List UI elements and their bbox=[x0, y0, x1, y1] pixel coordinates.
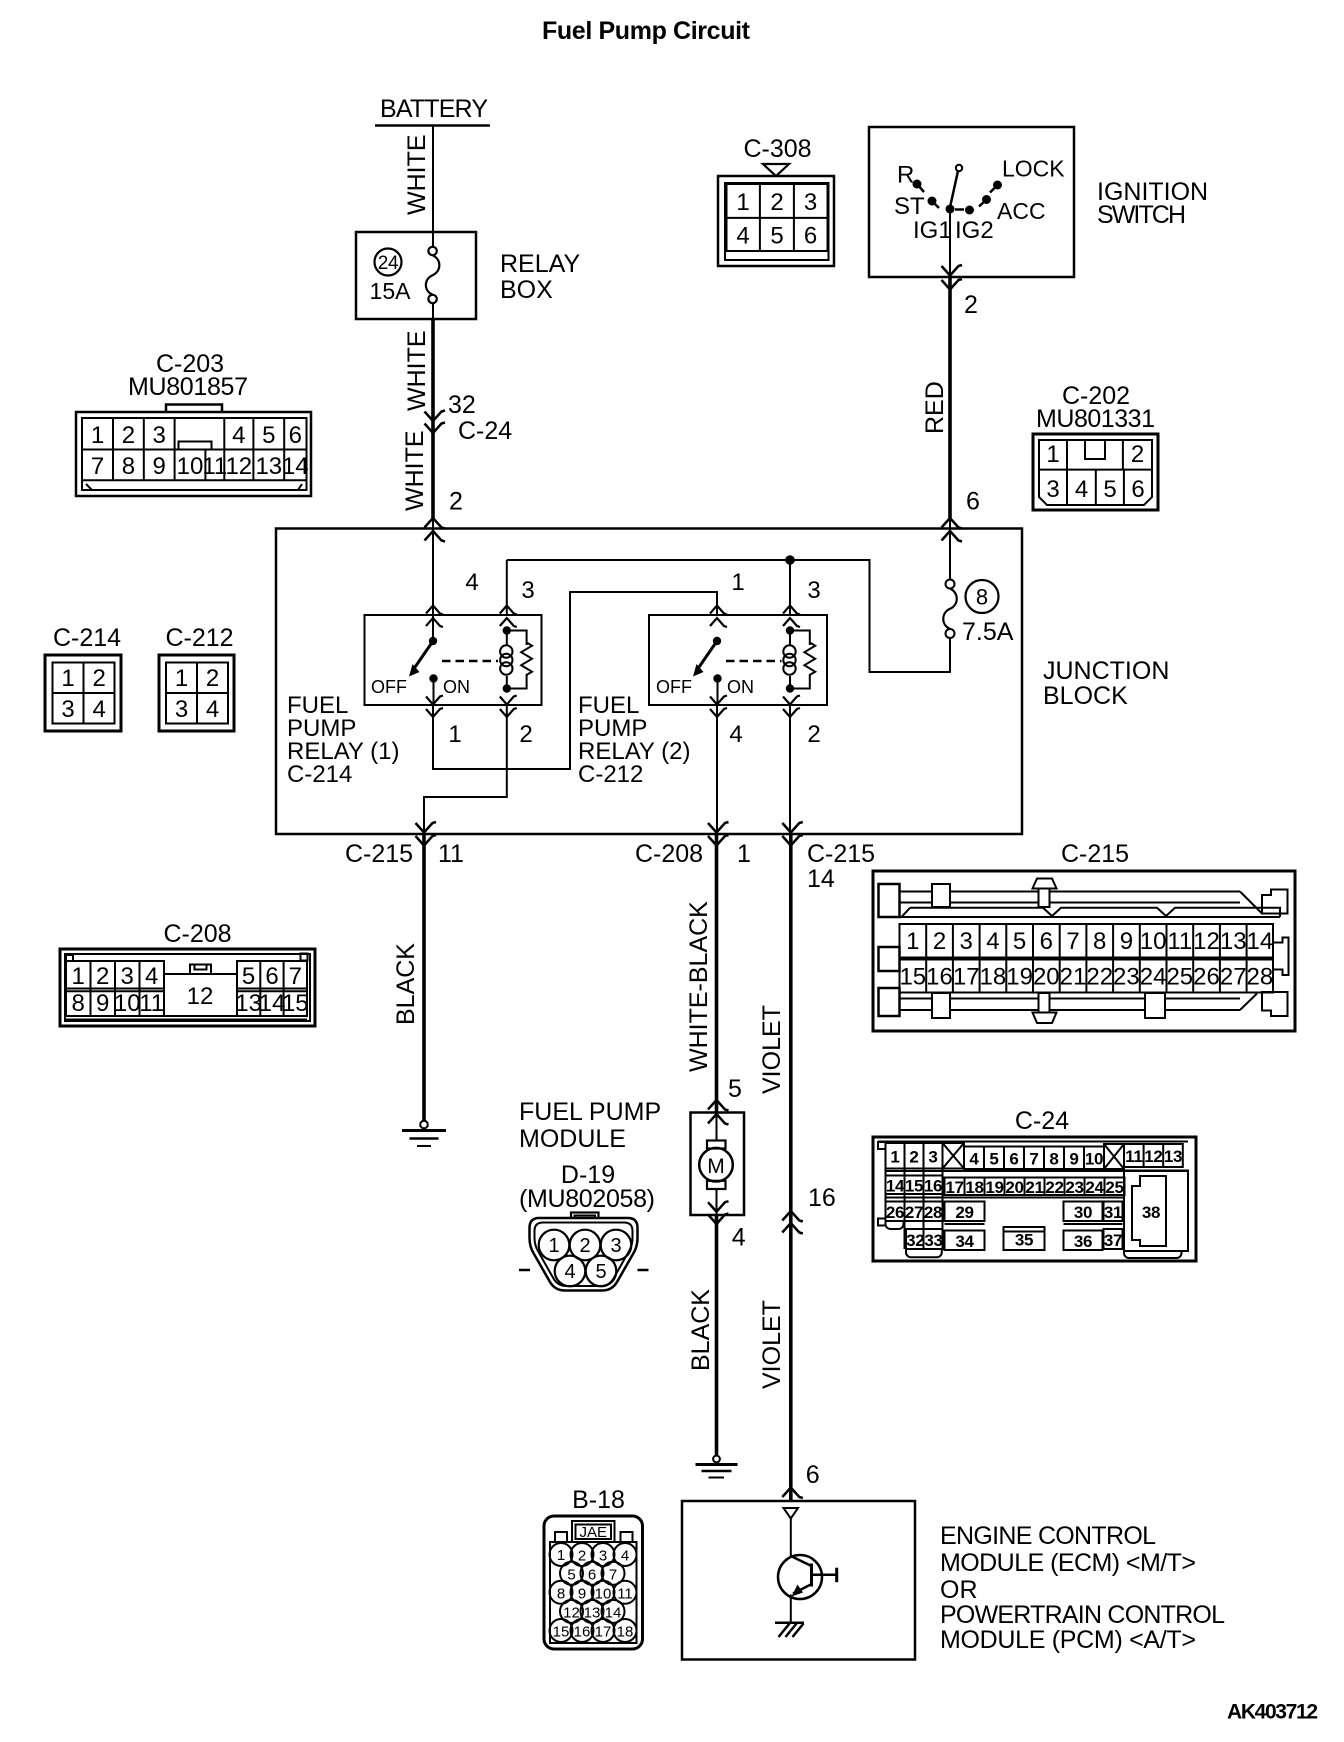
svg-text:15: 15 bbox=[905, 1177, 923, 1196]
svg-text:1: 1 bbox=[72, 963, 85, 990]
svg-text:14: 14 bbox=[1247, 928, 1274, 955]
svg-text:MODULE: MODULE bbox=[519, 1125, 626, 1153]
svg-text:C-215: C-215 bbox=[1061, 840, 1129, 868]
svg-text:WHITE: WHITE bbox=[403, 330, 431, 411]
svg-text:B-18: B-18 bbox=[572, 1486, 625, 1514]
svg-text:9: 9 bbox=[1069, 1150, 1078, 1169]
svg-text:4: 4 bbox=[145, 963, 158, 990]
svg-text:7: 7 bbox=[1066, 928, 1079, 955]
svg-text:9: 9 bbox=[96, 990, 109, 1017]
svg-text:18: 18 bbox=[965, 1178, 983, 1197]
svg-text:19: 19 bbox=[1006, 964, 1033, 991]
svg-text:9: 9 bbox=[578, 1585, 586, 1602]
svg-text:3: 3 bbox=[61, 696, 74, 723]
svg-text:OFF: OFF bbox=[371, 677, 407, 697]
svg-text:14: 14 bbox=[807, 865, 835, 893]
svg-text:27: 27 bbox=[905, 1203, 923, 1222]
svg-text:31: 31 bbox=[1104, 1203, 1122, 1222]
svg-text:MU801331: MU801331 bbox=[1036, 405, 1155, 433]
svg-text:11: 11 bbox=[1167, 928, 1192, 955]
svg-text:20: 20 bbox=[1005, 1178, 1023, 1197]
svg-text:POWERTRAIN CONTROL: POWERTRAIN CONTROL bbox=[940, 1601, 1225, 1629]
svg-text:37: 37 bbox=[1104, 1231, 1122, 1250]
svg-text:23: 23 bbox=[1065, 1178, 1083, 1197]
svg-text:10: 10 bbox=[177, 453, 204, 480]
svg-text:5: 5 bbox=[1103, 476, 1116, 503]
svg-text:MODULE (PCM) <A/T>: MODULE (PCM) <A/T> bbox=[940, 1626, 1196, 1654]
svg-text:AK403712: AK403712 bbox=[1227, 1701, 1318, 1724]
svg-text:3: 3 bbox=[521, 577, 534, 604]
svg-text:2: 2 bbox=[578, 1548, 586, 1565]
svg-text:2: 2 bbox=[964, 291, 978, 319]
svg-text:C-212: C-212 bbox=[165, 624, 233, 652]
svg-text:10: 10 bbox=[114, 990, 141, 1017]
svg-text:4: 4 bbox=[621, 1548, 629, 1565]
svg-text:15: 15 bbox=[899, 964, 926, 991]
svg-text:17: 17 bbox=[953, 964, 980, 991]
svg-text:SWITCH: SWITCH bbox=[1097, 201, 1186, 229]
svg-text:ST: ST bbox=[894, 193, 925, 220]
svg-text:36: 36 bbox=[1074, 1232, 1092, 1251]
svg-text:BATTERY: BATTERY bbox=[380, 95, 488, 123]
svg-text:14: 14 bbox=[886, 1177, 905, 1196]
svg-text:MODULE (ECM) <M/T>: MODULE (ECM) <M/T> bbox=[940, 1549, 1196, 1577]
svg-text:BLOCK: BLOCK bbox=[1043, 682, 1128, 710]
svg-text:C-308: C-308 bbox=[743, 135, 811, 163]
svg-text:4: 4 bbox=[729, 721, 742, 748]
svg-text:RED: RED bbox=[921, 381, 949, 434]
svg-text:9: 9 bbox=[153, 453, 166, 480]
svg-text:28: 28 bbox=[1247, 964, 1274, 991]
svg-text:C-208: C-208 bbox=[163, 920, 231, 948]
svg-text:5: 5 bbox=[770, 223, 783, 250]
svg-text:1: 1 bbox=[890, 1148, 899, 1167]
svg-text:2: 2 bbox=[93, 665, 106, 692]
svg-text:2: 2 bbox=[1131, 441, 1144, 468]
svg-text:10: 10 bbox=[1140, 928, 1167, 955]
svg-text:8: 8 bbox=[1093, 928, 1106, 955]
svg-text:34: 34 bbox=[955, 1232, 974, 1251]
svg-text:C-208: C-208 bbox=[635, 840, 703, 868]
svg-text:C-214: C-214 bbox=[53, 624, 121, 652]
svg-text:7: 7 bbox=[289, 963, 302, 990]
svg-text:11: 11 bbox=[438, 840, 464, 868]
svg-text:R: R bbox=[897, 162, 914, 189]
svg-text:JAE: JAE bbox=[579, 1524, 607, 1541]
svg-text:3: 3 bbox=[153, 422, 166, 449]
svg-text:8: 8 bbox=[122, 453, 135, 480]
svg-text:C-214: C-214 bbox=[287, 761, 352, 788]
svg-text:1: 1 bbox=[448, 721, 461, 748]
svg-text:16: 16 bbox=[926, 964, 953, 991]
svg-text:VIOLET: VIOLET bbox=[758, 1005, 786, 1094]
svg-text:ON: ON bbox=[727, 677, 754, 697]
svg-text:4: 4 bbox=[206, 696, 219, 723]
svg-text:4: 4 bbox=[232, 422, 245, 449]
svg-text:23: 23 bbox=[1113, 964, 1140, 991]
svg-text:18: 18 bbox=[617, 1624, 634, 1641]
svg-text:2: 2 bbox=[206, 665, 219, 692]
svg-text:11: 11 bbox=[1125, 1147, 1142, 1166]
svg-text:8: 8 bbox=[557, 1585, 565, 1602]
svg-text:32: 32 bbox=[906, 1231, 924, 1250]
svg-text:2: 2 bbox=[770, 189, 783, 216]
svg-text:OR: OR bbox=[940, 1576, 978, 1604]
svg-text:6: 6 bbox=[1009, 1150, 1018, 1169]
svg-text:15A: 15A bbox=[370, 278, 412, 304]
svg-text:OFF: OFF bbox=[656, 677, 692, 697]
svg-text:C-212: C-212 bbox=[578, 761, 643, 788]
svg-text:2: 2 bbox=[449, 488, 463, 516]
svg-text:24: 24 bbox=[378, 253, 399, 274]
svg-text:5: 5 bbox=[595, 1261, 606, 1283]
svg-text:1: 1 bbox=[731, 569, 744, 596]
svg-text:6: 6 bbox=[806, 1461, 820, 1489]
svg-text:3: 3 bbox=[1046, 476, 1059, 503]
svg-text:8: 8 bbox=[976, 585, 988, 610]
svg-text:16: 16 bbox=[574, 1624, 591, 1641]
svg-text:27: 27 bbox=[1220, 964, 1247, 991]
svg-text:3: 3 bbox=[599, 1548, 607, 1565]
svg-text:25: 25 bbox=[1105, 1178, 1123, 1197]
svg-text:11: 11 bbox=[202, 453, 227, 480]
svg-text:2: 2 bbox=[933, 928, 946, 955]
svg-text:BLACK: BLACK bbox=[687, 1289, 715, 1371]
svg-text:14: 14 bbox=[605, 1604, 622, 1621]
svg-text:1: 1 bbox=[557, 1547, 565, 1564]
svg-text:24: 24 bbox=[1085, 1178, 1104, 1197]
svg-text:14: 14 bbox=[282, 453, 309, 480]
svg-text:8: 8 bbox=[72, 990, 85, 1017]
svg-text:2: 2 bbox=[519, 721, 532, 748]
svg-text:21: 21 bbox=[1060, 964, 1087, 991]
svg-text:2: 2 bbox=[96, 963, 109, 990]
svg-text:1: 1 bbox=[737, 840, 751, 868]
svg-text:13: 13 bbox=[1220, 928, 1247, 955]
svg-text:6: 6 bbox=[289, 422, 302, 449]
svg-text:16: 16 bbox=[924, 1177, 942, 1196]
svg-text:4: 4 bbox=[465, 569, 478, 596]
svg-text:4: 4 bbox=[1075, 476, 1088, 503]
svg-text:C-215: C-215 bbox=[807, 840, 875, 868]
svg-text:30: 30 bbox=[1074, 1203, 1092, 1222]
svg-text:BLACK: BLACK bbox=[392, 943, 420, 1025]
svg-text:5: 5 bbox=[262, 422, 275, 449]
svg-text:(MU802058): (MU802058) bbox=[519, 1185, 655, 1213]
svg-text:12: 12 bbox=[1144, 1147, 1162, 1166]
svg-text:11: 11 bbox=[139, 990, 164, 1017]
svg-text:18: 18 bbox=[980, 964, 1007, 991]
svg-text:VIOLET: VIOLET bbox=[758, 1300, 786, 1389]
svg-text:32: 32 bbox=[448, 391, 476, 419]
svg-text:3: 3 bbox=[928, 1148, 937, 1167]
svg-text:IG1: IG1 bbox=[913, 217, 952, 244]
svg-text:3: 3 bbox=[807, 577, 820, 604]
svg-text:2: 2 bbox=[579, 1235, 590, 1257]
svg-text:2: 2 bbox=[122, 422, 135, 449]
svg-text:2: 2 bbox=[807, 721, 820, 748]
svg-text:Fuel Pump Circuit: Fuel Pump Circuit bbox=[542, 17, 751, 45]
svg-text:3: 3 bbox=[960, 928, 973, 955]
svg-text:3: 3 bbox=[610, 1235, 621, 1257]
svg-text:16: 16 bbox=[808, 1184, 836, 1212]
svg-text:12: 12 bbox=[225, 453, 252, 480]
svg-text:6: 6 bbox=[1040, 928, 1053, 955]
svg-text:2: 2 bbox=[909, 1148, 918, 1167]
svg-text:17: 17 bbox=[945, 1178, 963, 1197]
svg-text:13: 13 bbox=[1164, 1147, 1182, 1166]
svg-text:6: 6 bbox=[804, 223, 817, 250]
svg-text:5: 5 bbox=[1013, 928, 1026, 955]
svg-text:4: 4 bbox=[564, 1261, 575, 1283]
svg-text:6: 6 bbox=[966, 488, 980, 516]
svg-text:4: 4 bbox=[986, 928, 999, 955]
svg-text:25: 25 bbox=[1166, 964, 1193, 991]
svg-text:WHITE: WHITE bbox=[401, 430, 429, 511]
svg-text:BOX: BOX bbox=[500, 276, 553, 304]
svg-text:4: 4 bbox=[93, 696, 106, 723]
svg-text:10: 10 bbox=[595, 1585, 612, 1602]
svg-text:1: 1 bbox=[906, 928, 919, 955]
svg-text:7: 7 bbox=[609, 1566, 617, 1583]
svg-text:12: 12 bbox=[563, 1604, 580, 1621]
svg-text:4: 4 bbox=[736, 223, 749, 250]
svg-text:15: 15 bbox=[553, 1624, 570, 1641]
svg-text:1: 1 bbox=[61, 665, 74, 692]
svg-text:26: 26 bbox=[1193, 964, 1220, 991]
svg-text:ACC: ACC bbox=[997, 198, 1046, 224]
svg-text:19: 19 bbox=[985, 1178, 1003, 1197]
svg-text:6: 6 bbox=[265, 963, 278, 990]
svg-text:6: 6 bbox=[588, 1566, 596, 1583]
svg-text:3: 3 bbox=[121, 963, 134, 990]
svg-text:WHITE-BLACK: WHITE-BLACK bbox=[685, 901, 713, 1072]
svg-text:M: M bbox=[707, 1155, 725, 1178]
svg-text:C-24: C-24 bbox=[1015, 1107, 1069, 1135]
svg-text:5: 5 bbox=[728, 1075, 742, 1103]
svg-text:IG2: IG2 bbox=[955, 217, 994, 244]
svg-text:1: 1 bbox=[736, 189, 749, 216]
svg-text:7: 7 bbox=[91, 453, 104, 480]
svg-text:22: 22 bbox=[1086, 964, 1113, 991]
svg-text:10: 10 bbox=[1085, 1150, 1103, 1169]
svg-text:ENGINE CONTROL: ENGINE CONTROL bbox=[940, 1522, 1156, 1550]
svg-text:5: 5 bbox=[989, 1150, 998, 1169]
svg-text:3: 3 bbox=[175, 696, 188, 723]
svg-text:4: 4 bbox=[732, 1224, 746, 1252]
svg-text:1: 1 bbox=[91, 422, 104, 449]
svg-text:7.5A: 7.5A bbox=[962, 618, 1014, 646]
svg-text:3: 3 bbox=[804, 189, 817, 216]
svg-text:15: 15 bbox=[282, 990, 309, 1017]
svg-text:21: 21 bbox=[1025, 1178, 1043, 1197]
svg-text:9: 9 bbox=[1120, 928, 1133, 955]
svg-text:C-24: C-24 bbox=[458, 417, 512, 445]
svg-text:33: 33 bbox=[924, 1231, 942, 1250]
svg-text:C-215: C-215 bbox=[345, 840, 413, 868]
svg-text:5: 5 bbox=[567, 1566, 575, 1583]
svg-text:7: 7 bbox=[1029, 1150, 1038, 1169]
svg-text:1: 1 bbox=[175, 665, 188, 692]
svg-text:38: 38 bbox=[1142, 1203, 1160, 1222]
svg-text:6: 6 bbox=[1131, 476, 1144, 503]
svg-text:26: 26 bbox=[886, 1203, 904, 1222]
svg-text:1: 1 bbox=[548, 1235, 559, 1257]
svg-text:5: 5 bbox=[242, 963, 255, 990]
svg-text:13: 13 bbox=[255, 453, 282, 480]
svg-text:13: 13 bbox=[584, 1604, 601, 1621]
svg-text:17: 17 bbox=[595, 1624, 612, 1641]
svg-text:FUEL PUMP: FUEL PUMP bbox=[519, 1098, 661, 1126]
svg-text:11: 11 bbox=[617, 1585, 633, 1602]
svg-text:WHITE: WHITE bbox=[403, 134, 431, 215]
svg-text:12: 12 bbox=[1193, 928, 1220, 955]
svg-text:28: 28 bbox=[924, 1203, 942, 1222]
svg-text:4: 4 bbox=[969, 1150, 979, 1169]
svg-text:22: 22 bbox=[1045, 1178, 1063, 1197]
svg-text:RELAY: RELAY bbox=[500, 250, 580, 278]
svg-text:20: 20 bbox=[1033, 964, 1060, 991]
svg-text:12: 12 bbox=[187, 983, 214, 1010]
svg-text:1: 1 bbox=[1046, 441, 1059, 468]
svg-text:LOCK: LOCK bbox=[1002, 156, 1065, 182]
svg-text:MU801857: MU801857 bbox=[128, 373, 248, 401]
svg-text:24: 24 bbox=[1140, 964, 1167, 991]
svg-text:35: 35 bbox=[1015, 1231, 1033, 1250]
svg-text:29: 29 bbox=[955, 1203, 973, 1222]
svg-text:ON: ON bbox=[443, 677, 470, 697]
svg-text:8: 8 bbox=[1049, 1150, 1058, 1169]
svg-text:JUNCTION: JUNCTION bbox=[1043, 657, 1169, 685]
